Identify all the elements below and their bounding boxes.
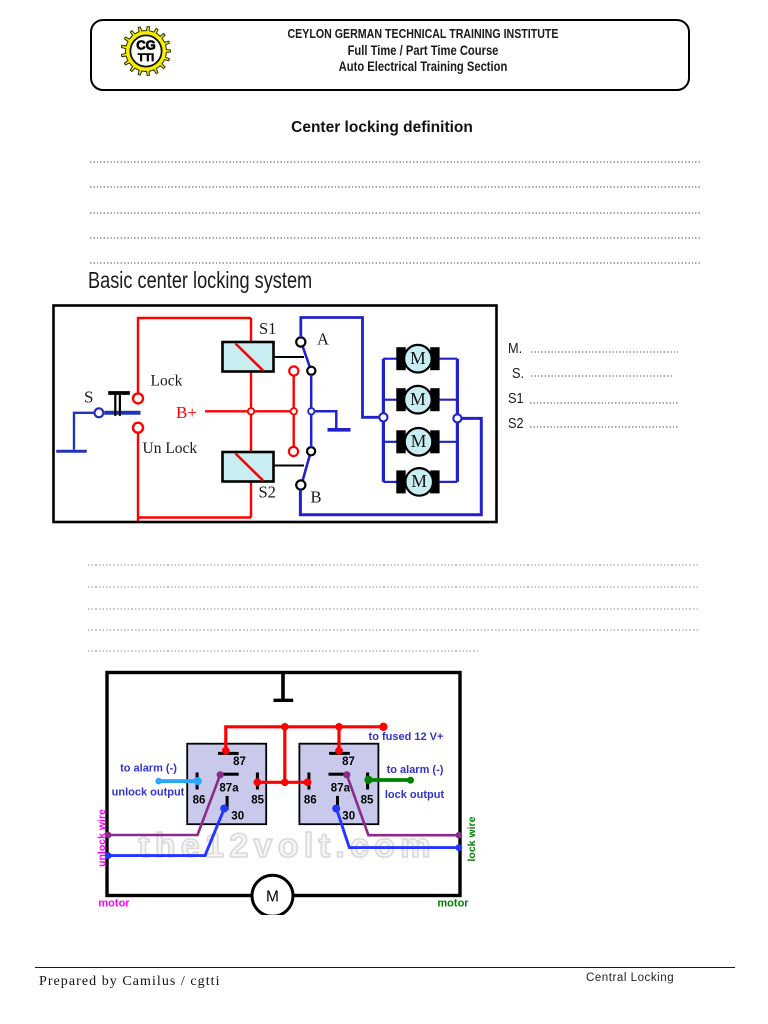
svg-text:lock wire: lock wire <box>466 816 478 861</box>
node: blue dot at relay2 pin 30 <box>332 805 340 813</box>
ground (top centre) <box>281 674 285 699</box>
relay 1 pin 85 post <box>256 773 259 790</box>
header box <box>90 19 690 91</box>
wire: motor left rail <box>382 359 385 482</box>
wire: cyan unlock output <box>159 779 198 783</box>
switch S terminal circle <box>95 408 104 417</box>
svg-text:motor: motor <box>98 898 130 910</box>
wire: red relay branch vertical <box>250 318 252 518</box>
contact B circle <box>296 480 305 489</box>
node: red junction on relay branch <box>248 408 254 414</box>
svg-text:S2: S2 <box>259 483 276 502</box>
dotted ruled lines group 1 <box>90 161 700 163</box>
wire: red 12V+ feed <box>226 727 384 783</box>
svg-text:to fused 12 V+: to fused 12 V+ <box>369 731 444 743</box>
node: cyan wire end dot <box>155 778 162 785</box>
node: cyan dot at relay1 pin 86 <box>194 777 202 785</box>
schematic 2 outer box <box>107 673 460 896</box>
wire: blue stub to ground <box>315 411 337 428</box>
relay 2 body <box>299 744 378 825</box>
node: purple dot at left border <box>105 832 112 839</box>
CGTTI gear logo <box>121 26 171 76</box>
wire: green lock output <box>369 778 411 782</box>
svg-text:B+: B+ <box>176 403 197 422</box>
svg-text:S1: S1 <box>259 319 276 338</box>
node: red junction on feed (left) <box>281 723 289 731</box>
contact A blade <box>303 346 311 368</box>
contact B blade <box>303 455 311 482</box>
svg-text:87a: 87a <box>331 782 351 794</box>
svg-text:motor: motor <box>437 898 469 910</box>
node: Lock contact <box>133 393 143 403</box>
relay S1 <box>223 342 274 372</box>
svg-text:87a: 87a <box>219 782 239 794</box>
relay 1 pin 87 bar <box>218 752 239 755</box>
svg-text:to alarm (-): to alarm (-) <box>120 762 177 774</box>
svg-text:unlock wire: unlock wire <box>96 809 108 867</box>
motor <box>252 875 293 916</box>
node: relay2 86 dot <box>304 778 312 786</box>
page title <box>0 120 764 136</box>
motor 4 <box>383 468 457 496</box>
svg-text:30: 30 <box>231 810 244 822</box>
node: purple dot at right border <box>456 832 463 839</box>
node: relay1 85 dot <box>254 778 262 786</box>
svg-text:86: 86 <box>193 794 206 806</box>
node: blue dot at left border <box>105 852 112 859</box>
schematic 1 outer box <box>54 306 497 523</box>
relay 1 pin 86 post <box>196 773 199 790</box>
motor 1 <box>383 345 457 373</box>
SCHEMATIC 1 <box>50 300 510 530</box>
wire: blue centre vertical between pivots <box>310 375 313 447</box>
svg-text:30: 30 <box>342 810 355 822</box>
svg-text:unlock output: unlock output <box>112 786 185 798</box>
svg-text:TTI: TTI <box>138 52 154 64</box>
svg-text:M: M <box>266 889 279 906</box>
relay 1 body <box>187 744 266 825</box>
svg-text:85: 85 <box>251 794 264 806</box>
contact A circle <box>296 337 305 346</box>
motor 3 <box>383 428 457 456</box>
ground (blue, left) <box>56 450 87 453</box>
svg-text:to alarm (-): to alarm (-) <box>387 764 444 776</box>
svg-text:the12volt.com: the12volt.com <box>138 827 436 865</box>
svg-text:87: 87 <box>342 756 355 768</box>
node: purple dot at relay2 pin 87a <box>343 771 350 778</box>
node: motor rail right junction <box>453 414 461 422</box>
node: blue dot at right border <box>455 844 462 851</box>
switch S: blue ground lead <box>74 413 95 450</box>
relay 2 pin 30 post <box>336 796 339 810</box>
relay 1 pin 87a bar <box>223 773 239 776</box>
svg-text:CG: CG <box>136 38 156 53</box>
wire: red centre contact bar <box>293 376 295 448</box>
ground (blue, centre) <box>328 428 351 432</box>
wire: motor right rail <box>456 359 459 482</box>
relay 2 pin 87 bar <box>329 752 350 755</box>
svg-text:85: 85 <box>361 794 374 806</box>
relay 2 pin 87a bar <box>329 773 345 776</box>
node: centre bar top circle <box>289 366 298 375</box>
relay 2 pin 85 post <box>366 773 369 790</box>
wire: blue from A up over to motor rail <box>301 318 380 418</box>
contact A pivot circle <box>307 367 315 375</box>
svg-text:87: 87 <box>233 756 246 768</box>
node: purple dot at relay1 pin 87a <box>217 771 224 778</box>
svg-text:M: M <box>410 389 426 409</box>
svg-text:M: M <box>411 431 427 451</box>
node: centre bar bottom circle <box>289 447 298 456</box>
node: red junction on relay link <box>281 779 289 787</box>
svg-text:Un Lock: Un Lock <box>143 440 198 457</box>
svg-text:A: A <box>317 330 329 349</box>
node: Un Lock contact <box>133 423 143 433</box>
node: green wire end dot <box>407 777 414 784</box>
wire: purple lock wire <box>347 775 459 835</box>
relay 2 pin 86 post <box>307 773 310 790</box>
svg-text:B: B <box>311 487 322 506</box>
node: motor rail left junction <box>379 413 387 421</box>
dotted ruled lines group 2 <box>88 564 700 566</box>
node: relay2 87 dot <box>335 747 343 755</box>
node: blue junction <box>308 408 314 414</box>
contact B pivot circle <box>307 447 315 455</box>
wire: black from S2 to contact B <box>274 465 305 467</box>
wire: blue relay1 pin30 <box>108 808 224 855</box>
node: relay1 87 dot <box>222 747 230 755</box>
footer left text <box>39 975 221 989</box>
node: red junction on feed (right) <box>335 723 343 731</box>
wire: blue switch blade <box>104 411 140 415</box>
svg-text:Lock: Lock <box>151 373 183 390</box>
svg-text:S: S <box>84 388 93 407</box>
relay S2 <box>223 452 274 482</box>
wire: purple unlock wire <box>108 775 220 835</box>
wire: red B+ feed horizontal <box>205 410 294 412</box>
svg-text:86: 86 <box>304 794 317 806</box>
node: red feed end dot <box>379 723 387 731</box>
section heading <box>88 269 312 292</box>
header text <box>213 27 634 40</box>
labels right of schematic 1 <box>508 341 522 356</box>
footer rule <box>35 967 735 969</box>
node: blue dot at relay1 pin 30 <box>220 805 228 813</box>
footer right text <box>586 973 674 985</box>
SCHEMATIC 2 <box>93 665 485 915</box>
wire: blue relay2 pin30 <box>337 809 459 848</box>
push button actuator <box>108 391 130 395</box>
motor 2 <box>383 386 457 414</box>
wire: black from S1 to contact A <box>274 356 305 358</box>
wire: blue from B down along bottom to right rail <box>300 418 481 514</box>
wire: red switch loop left vertical + top/bottom horizontals <box>138 318 251 521</box>
svg-text:lock output: lock output <box>385 789 445 801</box>
svg-text:M: M <box>411 471 427 491</box>
node: green dot at relay2 pin 85 <box>364 776 372 784</box>
relay 1 pin 30 post <box>226 796 229 810</box>
node: red junction centre bar <box>291 408 297 414</box>
svg-text:M: M <box>410 348 426 368</box>
wire: red link between relays <box>257 781 307 784</box>
